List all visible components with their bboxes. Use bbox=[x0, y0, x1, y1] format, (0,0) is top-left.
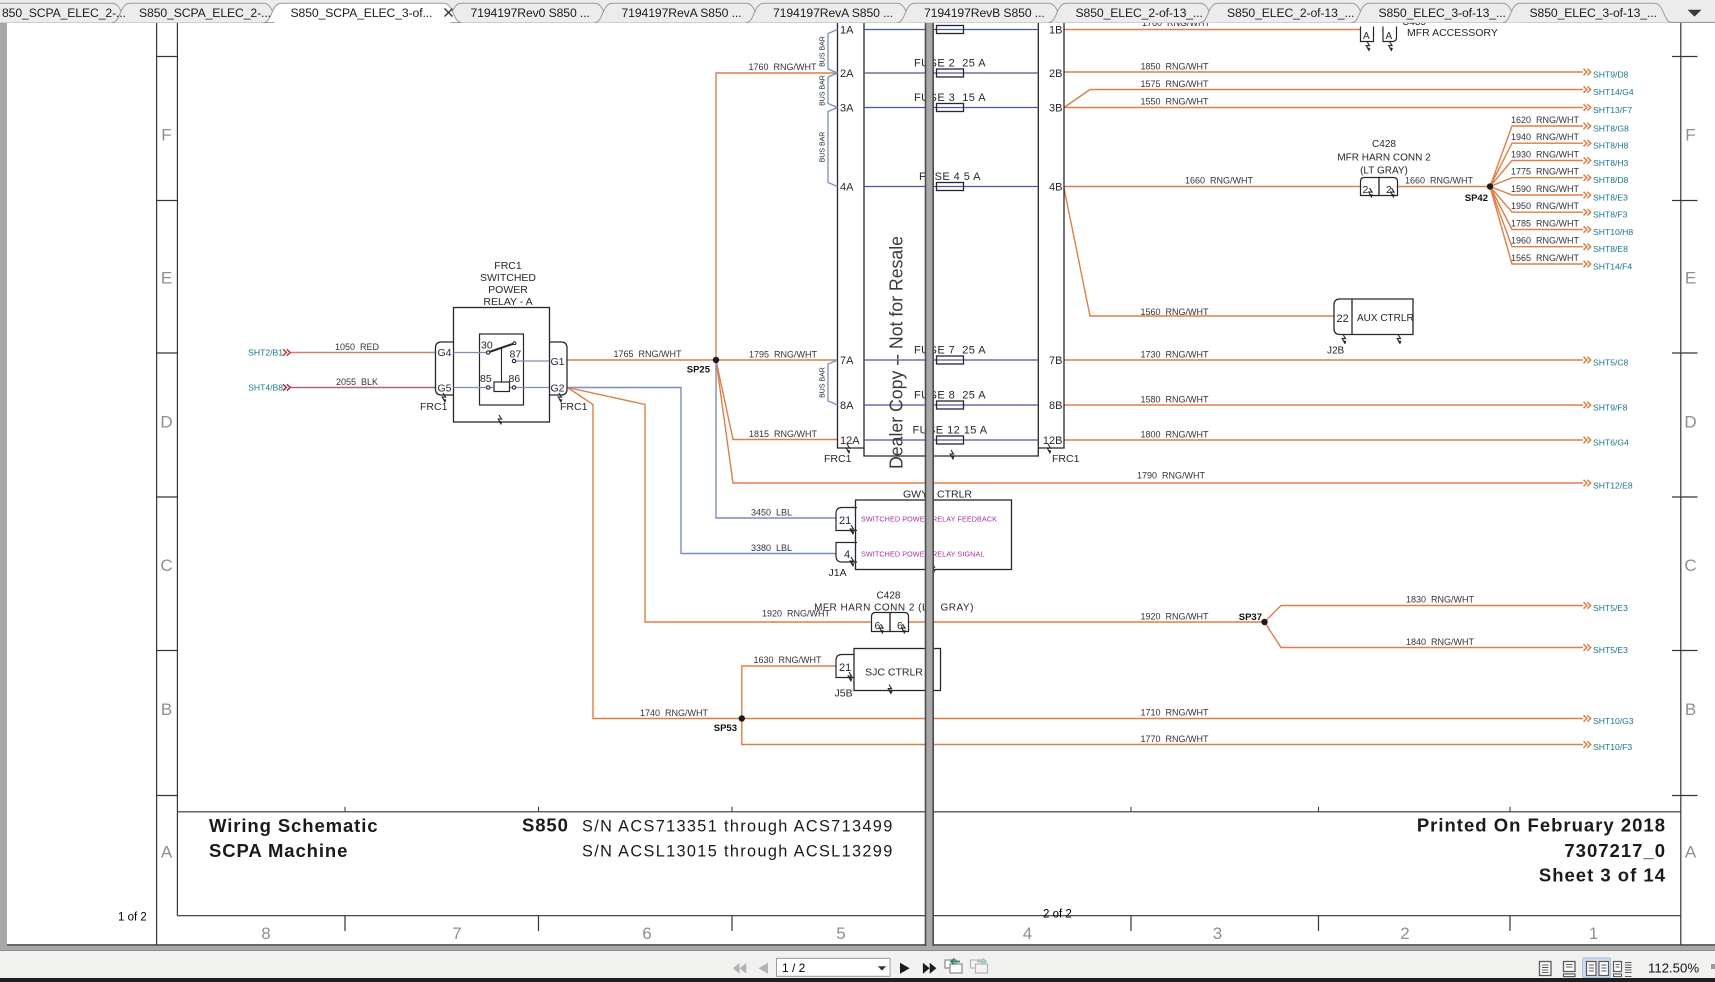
svg-text:1840 RNG/WHT: 1840 RNG/WHT bbox=[1406, 637, 1475, 647]
svg-text:MFR HARN CONN 2: MFR HARN CONN 2 bbox=[1337, 153, 1431, 164]
svg-text:850_SCPA_ELEC_2-...: 850_SCPA_ELEC_2-... bbox=[2, 6, 126, 20]
svg-text:CTRLR: CTRLR bbox=[937, 489, 972, 501]
svg-text:G2: G2 bbox=[551, 383, 565, 395]
svg-text:1 of 2: 1 of 2 bbox=[118, 912, 147, 924]
J1A pin 4 bbox=[836, 543, 857, 563]
wire 1710 RNG/WHT SP53 to SHT10/G3 bbox=[742, 718, 1583, 720]
page 2 inner border bottom bbox=[933, 915, 1681, 917]
svg-text:F: F bbox=[161, 126, 171, 145]
svg-text:RELAY - A: RELAY - A bbox=[483, 296, 532, 308]
relay inner box bbox=[480, 334, 524, 405]
svg-text:A: A bbox=[1685, 843, 1697, 862]
fuse F8 symbol bbox=[937, 401, 964, 409]
svg-text:1620 RNG/WHT: 1620 RNG/WHT bbox=[1511, 115, 1580, 125]
svg-text:7194197RevA S850 ...: 7194197RevA S850 ... bbox=[773, 6, 893, 20]
page 1 inner border left bbox=[176, 23, 178, 916]
wire 1590 RNG/WHT SP42 fan to SHT8/E3 bbox=[1490, 187, 1583, 196]
fuse F4 symbol bbox=[937, 183, 964, 191]
page number box bbox=[777, 958, 891, 976]
node SHT10/F3 bbox=[1584, 741, 1591, 747]
svg-text:MFR ACCESSORY: MFR ACCESSORY bbox=[1407, 27, 1498, 39]
svg-text:1740 RNG/WHT: 1740 RNG/WHT bbox=[640, 708, 709, 718]
column ticks page 1 bottom bbox=[344, 916, 346, 931]
svg-text:3380 LBL: 3380 LBL bbox=[751, 543, 792, 553]
svg-text:SHT5/C8: SHT5/C8 bbox=[1593, 358, 1629, 368]
svg-text:FRC1: FRC1 bbox=[420, 401, 448, 413]
svg-text:SHT6/G4: SHT6/G4 bbox=[1593, 438, 1629, 448]
page 2 title block top line bbox=[933, 811, 1681, 813]
svg-text:1830 RNG/WHT: 1830 RNG/WHT bbox=[1406, 595, 1475, 605]
svg-text:POWER: POWER bbox=[488, 284, 528, 296]
wire 1620 RNG/WHT SP42 fan to SHT8/G8 bbox=[1490, 126, 1583, 187]
fuse F3 symbol bbox=[937, 104, 964, 112]
wire 1830 RNG/WHT SP37 to SHT5/E3 bbox=[1265, 606, 1584, 623]
nav next page bbox=[900, 963, 910, 974]
fuse block body bbox=[864, 23, 1038, 456]
svg-text:FUSE 12 15 A: FUSE 12 15 A bbox=[912, 425, 987, 437]
svg-text:S850: S850 bbox=[522, 815, 569, 836]
svg-text:SHT13/F7: SHT13/F7 bbox=[1593, 105, 1632, 115]
svg-text:Printed On February 2018: Printed On February 2018 bbox=[1417, 815, 1666, 836]
svg-text:7307217_0: 7307217_0 bbox=[1564, 840, 1666, 861]
svg-text:2: 2 bbox=[1400, 924, 1409, 943]
svg-text:7194197RevB S850 ...: 7194197RevB S850 ... bbox=[924, 6, 1045, 20]
svg-text:SHT8/D8: SHT8/D8 bbox=[1593, 175, 1629, 185]
svg-text:1760 RNG/WHT: 1760 RNG/WHT bbox=[748, 62, 817, 72]
node SHT13/F7 bbox=[1584, 104, 1591, 110]
svg-text:1710 RNG/WHT: 1710 RNG/WHT bbox=[1140, 708, 1209, 718]
fuse F7 row wire bbox=[864, 359, 1038, 361]
svg-text:6: 6 bbox=[642, 924, 651, 943]
svg-text:12A: 12A bbox=[840, 435, 860, 447]
svg-text:5: 5 bbox=[836, 924, 845, 943]
svg-text:SHT8/E8: SHT8/E8 bbox=[1593, 244, 1628, 254]
splice SP25 bbox=[713, 357, 719, 363]
svg-text:1765 RNG/WHT: 1765 RNG/WHT bbox=[613, 349, 682, 359]
svg-text:Sheet 3 of 14: Sheet 3 of 14 bbox=[1539, 865, 1666, 886]
svg-text:S/N ACSL13015 through ACSL1329: S/N ACSL13015 through ACSL13299 bbox=[582, 843, 894, 861]
svg-text:BUS BAR: BUS BAR bbox=[820, 36, 827, 67]
node SHT10/H8 bbox=[1584, 226, 1591, 232]
svg-text:1815 RNG/WHT: 1815 RNG/WHT bbox=[749, 429, 818, 439]
svg-text:22: 22 bbox=[1337, 313, 1349, 325]
svg-text:G1: G1 bbox=[551, 356, 565, 368]
svg-text:SHT12/E8: SHT12/E8 bbox=[1593, 481, 1633, 491]
svg-text:C: C bbox=[1684, 556, 1696, 575]
node SHT6/G4 bbox=[1584, 437, 1591, 443]
svg-text:1560 RNG/WHT: 1560 RNG/WHT bbox=[1140, 307, 1209, 317]
svg-text:F: F bbox=[1685, 126, 1695, 145]
wire 1630 RNG/WHT SP53 riser to SJC pin 21 bbox=[742, 666, 836, 719]
svg-text:G4: G4 bbox=[438, 347, 452, 359]
svg-text:GWY: GWY bbox=[903, 489, 928, 501]
wire 1775 RNG/WHT SP42 fan to SHT8/D8 bbox=[1490, 178, 1583, 187]
svg-text:4A: 4A bbox=[840, 182, 854, 194]
svg-text:12B: 12B bbox=[1043, 435, 1063, 447]
svg-text:SHT8/H8: SHT8/H8 bbox=[1593, 141, 1629, 151]
svg-text:C: C bbox=[160, 556, 172, 575]
fuse F12 row wire bbox=[864, 439, 1038, 441]
svg-text:SHT10/F3: SHT10/F3 bbox=[1593, 742, 1632, 752]
svg-text:SHT10/G3: SHT10/G3 bbox=[1593, 716, 1634, 726]
previous view icon bbox=[945, 960, 956, 968]
wire 1760 RNG/WHT vertical riser from SP25 to pin 2A bbox=[716, 73, 838, 360]
svg-text:1565 RNG/WHT: 1565 RNG/WHT bbox=[1511, 253, 1580, 263]
svg-text:SP42: SP42 bbox=[1465, 193, 1488, 204]
svg-text:D: D bbox=[160, 413, 172, 432]
svg-text:S850_ELEC_3-of-13_...: S850_ELEC_3-of-13_... bbox=[1530, 6, 1657, 20]
svg-text:AUX CTRLR: AUX CTRLR bbox=[1357, 313, 1414, 324]
J5B pin 21 bbox=[836, 655, 854, 678]
svg-text:SHT8/G8: SHT8/G8 bbox=[1593, 124, 1629, 134]
wire 1560 RNG/WHT pin 4B to AUX CTRLR pin 22 bbox=[1064, 188, 1334, 316]
title block page 2 bbox=[1417, 815, 1666, 886]
wire 1960 RNG/WHT SP42 fan to SHT8/E8 bbox=[1490, 187, 1583, 247]
fuse F8 row wire bbox=[864, 404, 1038, 406]
svg-text:S850_ELEC_2-of-13_...: S850_ELEC_2-of-13_... bbox=[1227, 6, 1354, 20]
splice SP42 bbox=[1487, 183, 1493, 189]
svg-text:2 of 2: 2 of 2 bbox=[1043, 909, 1072, 921]
svg-text:1785 RNG/WHT: 1785 RNG/WHT bbox=[1511, 219, 1580, 229]
svg-text:SHT8/E3: SHT8/E3 bbox=[1593, 193, 1628, 203]
svg-text:SHT2/B1: SHT2/B1 bbox=[248, 348, 283, 358]
node SHT8/D8 bbox=[1584, 175, 1591, 181]
page 2 paper bbox=[933, 23, 1715, 946]
wire 2055 BLK from SHT4/B8 to relay G5 bbox=[289, 387, 436, 389]
bus bar 3A-4A bbox=[828, 108, 838, 187]
svg-text:SHT5/E3: SHT5/E3 bbox=[1593, 645, 1628, 655]
page 1 title block top line bbox=[177, 811, 925, 813]
svg-text:87: 87 bbox=[510, 349, 522, 361]
svg-text:D: D bbox=[1684, 413, 1696, 432]
svg-text:FRC1: FRC1 bbox=[494, 260, 522, 272]
wire 3380 LBL relay G2 to J1A pin 4 bbox=[568, 388, 837, 554]
wire 3450 LBL SP25 to J1A pin 21 bbox=[716, 360, 836, 518]
FRC1 labels under fuse block bbox=[846, 444, 849, 454]
svg-text:8A: 8A bbox=[840, 400, 854, 412]
wire 1550 RNG/WHT pin 3B to SHT13/F7 bbox=[1064, 107, 1583, 109]
svg-text:(LT GRAY): (LT GRAY) bbox=[1360, 166, 1408, 177]
title block page 1 bbox=[209, 815, 894, 862]
svg-text:2B: 2B bbox=[1049, 68, 1062, 80]
svg-text:4: 4 bbox=[1023, 924, 1032, 943]
svg-text:Dealer Copy -- Not for Resale: Dealer Copy -- Not for Resale bbox=[886, 236, 907, 469]
node SHT8/H3 bbox=[1584, 157, 1591, 163]
wire 1840 RNG/WHT SP37 to SHT5/E3 bbox=[1265, 622, 1584, 648]
svg-text:3: 3 bbox=[1213, 924, 1222, 943]
svg-text:FRC1: FRC1 bbox=[1052, 453, 1080, 465]
svg-text:1660 RNG/WHT: 1660 RNG/WHT bbox=[1405, 176, 1474, 186]
svg-text:Wiring Schematic: Wiring Schematic bbox=[209, 815, 378, 836]
fuse F4 row wire bbox=[864, 186, 1038, 188]
svg-text:A: A bbox=[1363, 31, 1370, 42]
fuse F3 row wire bbox=[864, 107, 1038, 109]
svg-text:1575 RNG/WHT: 1575 RNG/WHT bbox=[1140, 79, 1209, 89]
wire 1765 RNG/WHT relay G1 to SP25 bbox=[568, 359, 717, 361]
fuse F7 symbol bbox=[937, 356, 964, 364]
svg-text:SP53: SP53 bbox=[714, 723, 737, 734]
column ticks page 2 bottom bbox=[1130, 916, 1132, 931]
svg-text:1730 RNG/WHT: 1730 RNG/WHT bbox=[1140, 350, 1209, 360]
wire 1920 RNG/WHT C428 pin 6 to SP37 bbox=[909, 621, 1265, 623]
relay switch arm bbox=[489, 344, 514, 353]
svg-text:J2B: J2B bbox=[1327, 346, 1345, 357]
node SHT5/E3 bbox=[1584, 602, 1591, 608]
node SHT5/E3 bbox=[1584, 644, 1591, 650]
svg-text:1770 RNG/WHT: 1770 RNG/WHT bbox=[1140, 734, 1209, 744]
wire 1050 RED from SHT2/B1 to relay G4 bbox=[289, 352, 436, 354]
wire 1850 RNG/WHT pin 2B to SHT9/D8 bbox=[1064, 71, 1583, 73]
svg-text:30: 30 bbox=[481, 340, 493, 352]
wire 1760 RNG/WHT pin 1B to C435 bbox=[1064, 29, 1361, 31]
svg-text:SHT14/F4: SHT14/F4 bbox=[1593, 262, 1632, 272]
wire 1930 RNG/WHT SP42 fan to SHT8/H3 bbox=[1490, 161, 1583, 187]
svg-text:7194197Rev0 S850 ...: 7194197Rev0 S850 ... bbox=[471, 6, 590, 20]
layout icon two pages continuous bbox=[1614, 962, 1622, 972]
wire 1800 RNG/WHT pin 12B to SHT6/G4 bbox=[1064, 439, 1583, 441]
svg-text:B: B bbox=[1685, 700, 1696, 719]
svg-text:7: 7 bbox=[452, 924, 461, 943]
svg-text:SJC CTRLR: SJC CTRLR bbox=[865, 667, 923, 679]
svg-text:SHT10/H8: SHT10/H8 bbox=[1593, 227, 1633, 237]
svg-text:A: A bbox=[1386, 31, 1393, 42]
wire 1580 RNG/WHT pin 8B to SHT9/F8 bbox=[1064, 404, 1583, 406]
svg-text:S850_ELEC_3-of-13_...: S850_ELEC_3-of-13_... bbox=[1379, 6, 1506, 20]
page 1 inner border bottom bbox=[177, 915, 925, 917]
svg-text:C428: C428 bbox=[1372, 139, 1396, 150]
svg-text:6: 6 bbox=[897, 620, 903, 632]
svg-text:SHT14/G4: SHT14/G4 bbox=[1593, 87, 1634, 97]
next view icon (disabled) bbox=[971, 960, 982, 968]
fuse F2 symbol bbox=[937, 69, 964, 77]
node SHT10/G3 bbox=[1584, 715, 1591, 721]
svg-text:1580 RNG/WHT: 1580 RNG/WHT bbox=[1140, 395, 1209, 405]
svg-text:A: A bbox=[161, 843, 173, 862]
fuse F12 symbol bbox=[937, 436, 964, 444]
svg-text:FRC1: FRC1 bbox=[560, 401, 588, 413]
layout icon continuous bbox=[1564, 962, 1576, 972]
svg-text:2055 BLK: 2055 BLK bbox=[336, 377, 378, 387]
page gap divider bbox=[926, 23, 933, 946]
svg-text:MFR HARN CONN 2 (LT GRAY): MFR HARN CONN 2 (LT GRAY) bbox=[814, 603, 974, 614]
svg-text:J5B: J5B bbox=[835, 688, 853, 700]
relay coil drive link bbox=[501, 348, 503, 382]
svg-text:S/N ACS713351 through ACS71349: S/N ACS713351 through ACS713499 bbox=[582, 818, 894, 836]
nav previous page bbox=[758, 963, 768, 974]
wire 1815 RNG/WHT SP25 to pin 12A bbox=[716, 360, 838, 440]
svg-text:1050 RED: 1050 RED bbox=[335, 342, 380, 352]
svg-text:2A: 2A bbox=[840, 68, 854, 80]
svg-text:SHT9/F8: SHT9/F8 bbox=[1593, 403, 1628, 413]
fuse F2 row wire bbox=[864, 72, 1038, 74]
fuse F1 row wire bbox=[864, 29, 1038, 31]
bus bar 1A-2A bbox=[828, 30, 838, 74]
node SHT14/F4 bbox=[1584, 261, 1591, 267]
op-box AUX CTRLR (J2B) bbox=[1334, 299, 1413, 335]
svg-text:1B: 1B bbox=[1049, 25, 1062, 37]
wire 1770 RNG/WHT SP53 to SHT10/F3 bbox=[742, 719, 1583, 745]
svg-text:1800 RNG/WHT: 1800 RNG/WHT bbox=[1140, 430, 1209, 440]
wire 1940 RNG/WHT SP42 fan to SHT8/H8 bbox=[1490, 143, 1583, 186]
svg-text:SHT4/B8: SHT4/B8 bbox=[248, 383, 283, 393]
svg-text:E: E bbox=[161, 269, 172, 288]
svg-text:G5: G5 bbox=[438, 383, 452, 395]
wire 1575 RNG/WHT pin 3B to SHT14/G4 bbox=[1064, 90, 1583, 108]
relay bracket G4/G5 bbox=[436, 342, 454, 395]
node SHT12/E8 bbox=[1584, 480, 1591, 486]
svg-text:SWITCHED: SWITCHED bbox=[480, 272, 536, 284]
svg-text:S850_SCPA_ELEC_2-...: S850_SCPA_ELEC_2-... bbox=[139, 6, 271, 20]
svg-text:J1A: J1A bbox=[829, 567, 847, 579]
svg-text:3B: 3B bbox=[1049, 103, 1062, 115]
wire 1950 RNG/WHT SP42 fan to SHT8/F3 bbox=[1490, 187, 1583, 213]
nav last page bbox=[923, 963, 937, 974]
relay outer box bbox=[454, 308, 550, 423]
connector FRC1 left pin strip bbox=[838, 23, 865, 448]
wire 1795 RNG/WHT SP25 to pin 7A bbox=[716, 359, 838, 361]
page 1 paper bbox=[7, 23, 926, 946]
connector C435 pin A|A bbox=[1361, 27, 1374, 42]
op-box SJC CTRLR (J5B) bbox=[854, 649, 941, 691]
svg-text:85: 85 bbox=[480, 373, 492, 385]
node SHT8/E3 bbox=[1584, 192, 1591, 198]
svg-text:1 / 2: 1 / 2 bbox=[782, 961, 806, 975]
svg-text:1920 RNG/WHT: 1920 RNG/WHT bbox=[1140, 612, 1209, 622]
svg-text:SHT5/E3: SHT5/E3 bbox=[1593, 603, 1628, 613]
svg-text:1760 RNG/WHT: 1760 RNG/WHT bbox=[1142, 23, 1211, 28]
node SHT9/F8 bbox=[1584, 402, 1591, 408]
svg-text:SHT8/F3: SHT8/F3 bbox=[1593, 210, 1628, 220]
J1A pin 21 bbox=[836, 508, 857, 531]
relay contact wires bbox=[454, 352, 487, 354]
svg-text:4: 4 bbox=[844, 549, 850, 561]
svg-text:8B: 8B bbox=[1049, 400, 1062, 412]
splice SP53 bbox=[739, 715, 745, 721]
relay FRC1 connector labels bbox=[442, 393, 445, 403]
svg-text:1790 RNG/WHT: 1790 RNG/WHT bbox=[1137, 471, 1206, 481]
relay coil bbox=[494, 382, 510, 392]
relay bracket G1/G2 bbox=[549, 342, 567, 395]
svg-text:1795 RNG/WHT: 1795 RNG/WHT bbox=[749, 350, 818, 360]
svg-text:6: 6 bbox=[875, 620, 881, 632]
svg-text:2: 2 bbox=[1363, 184, 1369, 196]
svg-text:8: 8 bbox=[261, 924, 270, 943]
svg-text:1: 1 bbox=[1589, 924, 1598, 943]
svg-text:C428: C428 bbox=[877, 591, 901, 602]
svg-text:7B: 7B bbox=[1049, 355, 1062, 367]
node SHT8/F3 bbox=[1584, 209, 1591, 215]
connector FRC1 right pin strip bbox=[1038, 23, 1064, 448]
connector C428 pin 6|6 bbox=[872, 613, 891, 632]
svg-text:7A: 7A bbox=[840, 355, 854, 367]
node SHT8/G8 bbox=[1584, 123, 1591, 129]
svg-text:1850 RNG/WHT: 1850 RNG/WHT bbox=[1140, 62, 1209, 72]
wire 1730 RNG/WHT pin 7B to SHT5/C8 bbox=[1064, 359, 1583, 361]
svg-text:BUS BAR: BUS BAR bbox=[820, 75, 827, 106]
connector C428 pin 2|2 bbox=[1361, 178, 1380, 196]
page 1 outer border bottom bbox=[7, 944, 926, 946]
bus bar 2A-3A bbox=[828, 73, 838, 108]
wire 1740 RNG/WHT relay G2 to SP53 bbox=[568, 388, 742, 719]
bus bar 7A-8A bbox=[828, 360, 838, 405]
svg-text:SP25: SP25 bbox=[687, 365, 711, 376]
nav first page bbox=[733, 963, 747, 974]
wire 1660 RNG/WHT pin 4B to C428 bbox=[1064, 186, 1361, 188]
svg-text:1660 RNG/WHT: 1660 RNG/WHT bbox=[1185, 176, 1254, 186]
node SHT9/D8 bbox=[1584, 69, 1591, 75]
svg-text:3450 LBL: 3450 LBL bbox=[751, 508, 792, 518]
svg-text:1930 RNG/WHT: 1930 RNG/WHT bbox=[1511, 150, 1580, 160]
svg-text:3A: 3A bbox=[840, 103, 854, 115]
wire 1785 RNG/WHT SP42 fan to SHT10/H8 bbox=[1490, 187, 1583, 230]
node SHT14/G4 bbox=[1584, 86, 1591, 92]
page 2 inner border right bbox=[1680, 23, 1682, 946]
svg-text:1550 RNG/WHT: 1550 RNG/WHT bbox=[1140, 97, 1209, 107]
svg-text:86: 86 bbox=[509, 373, 521, 385]
svg-text:2: 2 bbox=[1386, 184, 1392, 196]
svg-text:112.50%: 112.50% bbox=[1648, 961, 1699, 976]
PDF viewer tab bar bbox=[0, 0, 1715, 23]
svg-text:1775 RNG/WHT: 1775 RNG/WHT bbox=[1511, 167, 1580, 177]
svg-text:1630 RNG/WHT: 1630 RNG/WHT bbox=[753, 655, 822, 665]
wire 1565 RNG/WHT SP42 fan to SHT14/F4 bbox=[1490, 187, 1583, 265]
node SHT8/H8 bbox=[1584, 140, 1591, 146]
svg-text:SWITCHED POWER RELAY SIGNAL: SWITCHED POWER RELAY SIGNAL bbox=[861, 550, 984, 559]
layout icon two pages (selected) bbox=[1583, 958, 1611, 978]
svg-text:BUS BAR: BUS BAR bbox=[820, 132, 827, 163]
wire 1790 RNG/WHT SP25 to SHT12/E8 bbox=[716, 360, 1583, 483]
svg-text:1940 RNG/WHT: 1940 RNG/WHT bbox=[1511, 132, 1580, 142]
fuse F1 symbol bbox=[937, 26, 964, 34]
page 2 outer border bottom bbox=[933, 944, 1715, 946]
wire 1920 RNG/WHT relay G2 to C428 pin 6 bbox=[568, 388, 872, 623]
splice SP37 bbox=[1261, 619, 1267, 625]
row ticks right border bbox=[1672, 56, 1698, 58]
svg-text:E: E bbox=[1685, 269, 1696, 288]
node SHT8/E8 bbox=[1584, 244, 1591, 250]
page 1 outer border left bbox=[156, 23, 158, 946]
svg-text:1950 RNG/WHT: 1950 RNG/WHT bbox=[1511, 201, 1580, 211]
node SHT5/C8 bbox=[1584, 357, 1591, 363]
svg-text:1960 RNG/WHT: 1960 RNG/WHT bbox=[1511, 236, 1580, 246]
layout icon single page bbox=[1540, 962, 1552, 976]
svg-text:4B: 4B bbox=[1049, 182, 1062, 194]
svg-text:7194197RevA S850 ...: 7194197RevA S850 ... bbox=[622, 6, 742, 20]
svg-text:BUS BAR: BUS BAR bbox=[820, 367, 827, 398]
svg-text:FRC1: FRC1 bbox=[824, 453, 852, 465]
svg-text:SHT8/H3: SHT8/H3 bbox=[1593, 158, 1629, 168]
svg-text:S850_SCPA_ELEC_3-of...: S850_SCPA_ELEC_3-of... bbox=[291, 6, 433, 20]
svg-text:1A: 1A bbox=[840, 25, 854, 37]
svg-text:S850_ELEC_2-of-13_...: S850_ELEC_2-of-13_... bbox=[1076, 6, 1203, 20]
svg-text:1590 RNG/WHT: 1590 RNG/WHT bbox=[1511, 184, 1580, 194]
svg-text:B: B bbox=[161, 700, 172, 719]
svg-text:SP37: SP37 bbox=[1239, 612, 1262, 623]
row ticks left border bbox=[157, 56, 177, 58]
wire 1660 RNG/WHT C428 to SP42 bbox=[1398, 186, 1491, 188]
svg-text:21: 21 bbox=[839, 515, 851, 527]
svg-text:SCPA Machine: SCPA Machine bbox=[209, 840, 348, 861]
svg-text:SHT9/D8: SHT9/D8 bbox=[1593, 70, 1629, 80]
